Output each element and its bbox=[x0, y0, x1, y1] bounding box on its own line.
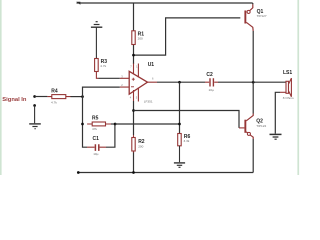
svg-text:3.3k: 3.3k bbox=[184, 139, 190, 143]
svg-text:4.7k: 4.7k bbox=[51, 101, 57, 105]
node signal input bbox=[33, 95, 36, 98]
ground input jack bbox=[29, 106, 41, 129]
node R5 left bbox=[81, 123, 84, 126]
svg-text:TIP127: TIP127 bbox=[257, 14, 267, 18]
wire step to Q1 base bbox=[134, 18, 241, 55]
wire opamp V- down through R2 bbox=[133, 101, 135, 173]
svg-text:7: 7 bbox=[130, 65, 132, 69]
wire R4 to node bbox=[71, 96, 83, 98]
svg-text:U1: U1 bbox=[148, 62, 155, 68]
page right border bbox=[297, 0, 299, 175]
wire bottom rail bbox=[78, 172, 253, 174]
node input ground terminal bbox=[33, 104, 36, 107]
svg-text:1: 1 bbox=[136, 65, 138, 69]
svg-text:R5: R5 bbox=[92, 115, 99, 121]
wire top positive rail bbox=[77, 2, 253, 4]
svg-text:R4: R4 bbox=[51, 89, 58, 95]
wire input to R4 bbox=[35, 96, 48, 98]
transistor Q2 bbox=[244, 82, 266, 172]
wire junction down loop left bbox=[83, 97, 88, 148]
transistor Q1 bbox=[244, 3, 266, 82]
node Q2 base takeoff bbox=[132, 109, 135, 112]
svg-text:200: 200 bbox=[138, 36, 143, 40]
op-amp U1 bbox=[120, 62, 157, 104]
svg-text:10µ: 10µ bbox=[209, 88, 214, 92]
resistor R3 bbox=[95, 59, 108, 72]
ground speaker bbox=[270, 134, 282, 139]
wire junction up to pin2 bbox=[83, 87, 120, 97]
svg-text:C1: C1 bbox=[93, 136, 100, 142]
svg-text:C2: C2 bbox=[206, 72, 213, 78]
svg-text:2: 2 bbox=[121, 83, 123, 87]
wire output down to R6 bbox=[179, 82, 181, 133]
resistor R5 bbox=[87, 115, 111, 130]
wire feedback to R6 node bbox=[115, 123, 179, 125]
page left border bbox=[0, 0, 2, 175]
svg-text:4.7k: 4.7k bbox=[100, 64, 106, 68]
svg-text:10µ: 10µ bbox=[93, 152, 98, 156]
node R4 right junction bbox=[81, 95, 84, 98]
node feedback left bbox=[114, 123, 117, 126]
svg-text:47k: 47k bbox=[92, 127, 97, 131]
svg-text:5: 5 bbox=[136, 95, 138, 99]
wire R3 to pin3 bbox=[96, 72, 119, 79]
ground below R6 bbox=[174, 146, 185, 168]
svg-text:8 Ohms: 8 Ohms bbox=[283, 96, 294, 100]
resistor R4 bbox=[47, 89, 70, 105]
resistor R2 bbox=[132, 135, 145, 153]
node R2 bottom on rail bbox=[132, 171, 135, 174]
capacitor C1 bbox=[87, 136, 106, 156]
node rail left end bbox=[77, 171, 80, 174]
svg-text:LF351: LF351 bbox=[144, 99, 153, 103]
node R1 bottom junction bbox=[132, 54, 135, 57]
wire C1 right up to node bbox=[106, 124, 115, 147]
wire speaker bottom to ground bbox=[275, 92, 286, 133]
node output junction bbox=[178, 81, 181, 84]
svg-text:200: 200 bbox=[138, 144, 143, 148]
node R6 top bbox=[178, 123, 181, 126]
svg-text:3: 3 bbox=[121, 74, 123, 78]
node speaker junction bbox=[252, 81, 255, 84]
svg-text:4: 4 bbox=[130, 95, 132, 99]
speaker LS1 bbox=[283, 70, 294, 100]
capacitor C2 bbox=[205, 72, 218, 92]
svg-text:Signal In: Signal In bbox=[2, 97, 27, 103]
svg-text:TIP122: TIP122 bbox=[256, 124, 266, 128]
wire output bbox=[157, 81, 286, 83]
wire R1 branch vertical bbox=[133, 3, 135, 64]
svg-text:LS1: LS1 bbox=[283, 70, 292, 76]
ground above R3 (inverted) bbox=[91, 22, 102, 59]
resistor R1 bbox=[132, 31, 144, 45]
wire R5 right to node bbox=[111, 123, 115, 125]
svg-text:6: 6 bbox=[152, 77, 154, 81]
wire to Q2 base bbox=[134, 111, 245, 128]
resistor R6 bbox=[178, 134, 191, 146]
terminal arrow at rail left end bbox=[76, 2, 80, 5]
